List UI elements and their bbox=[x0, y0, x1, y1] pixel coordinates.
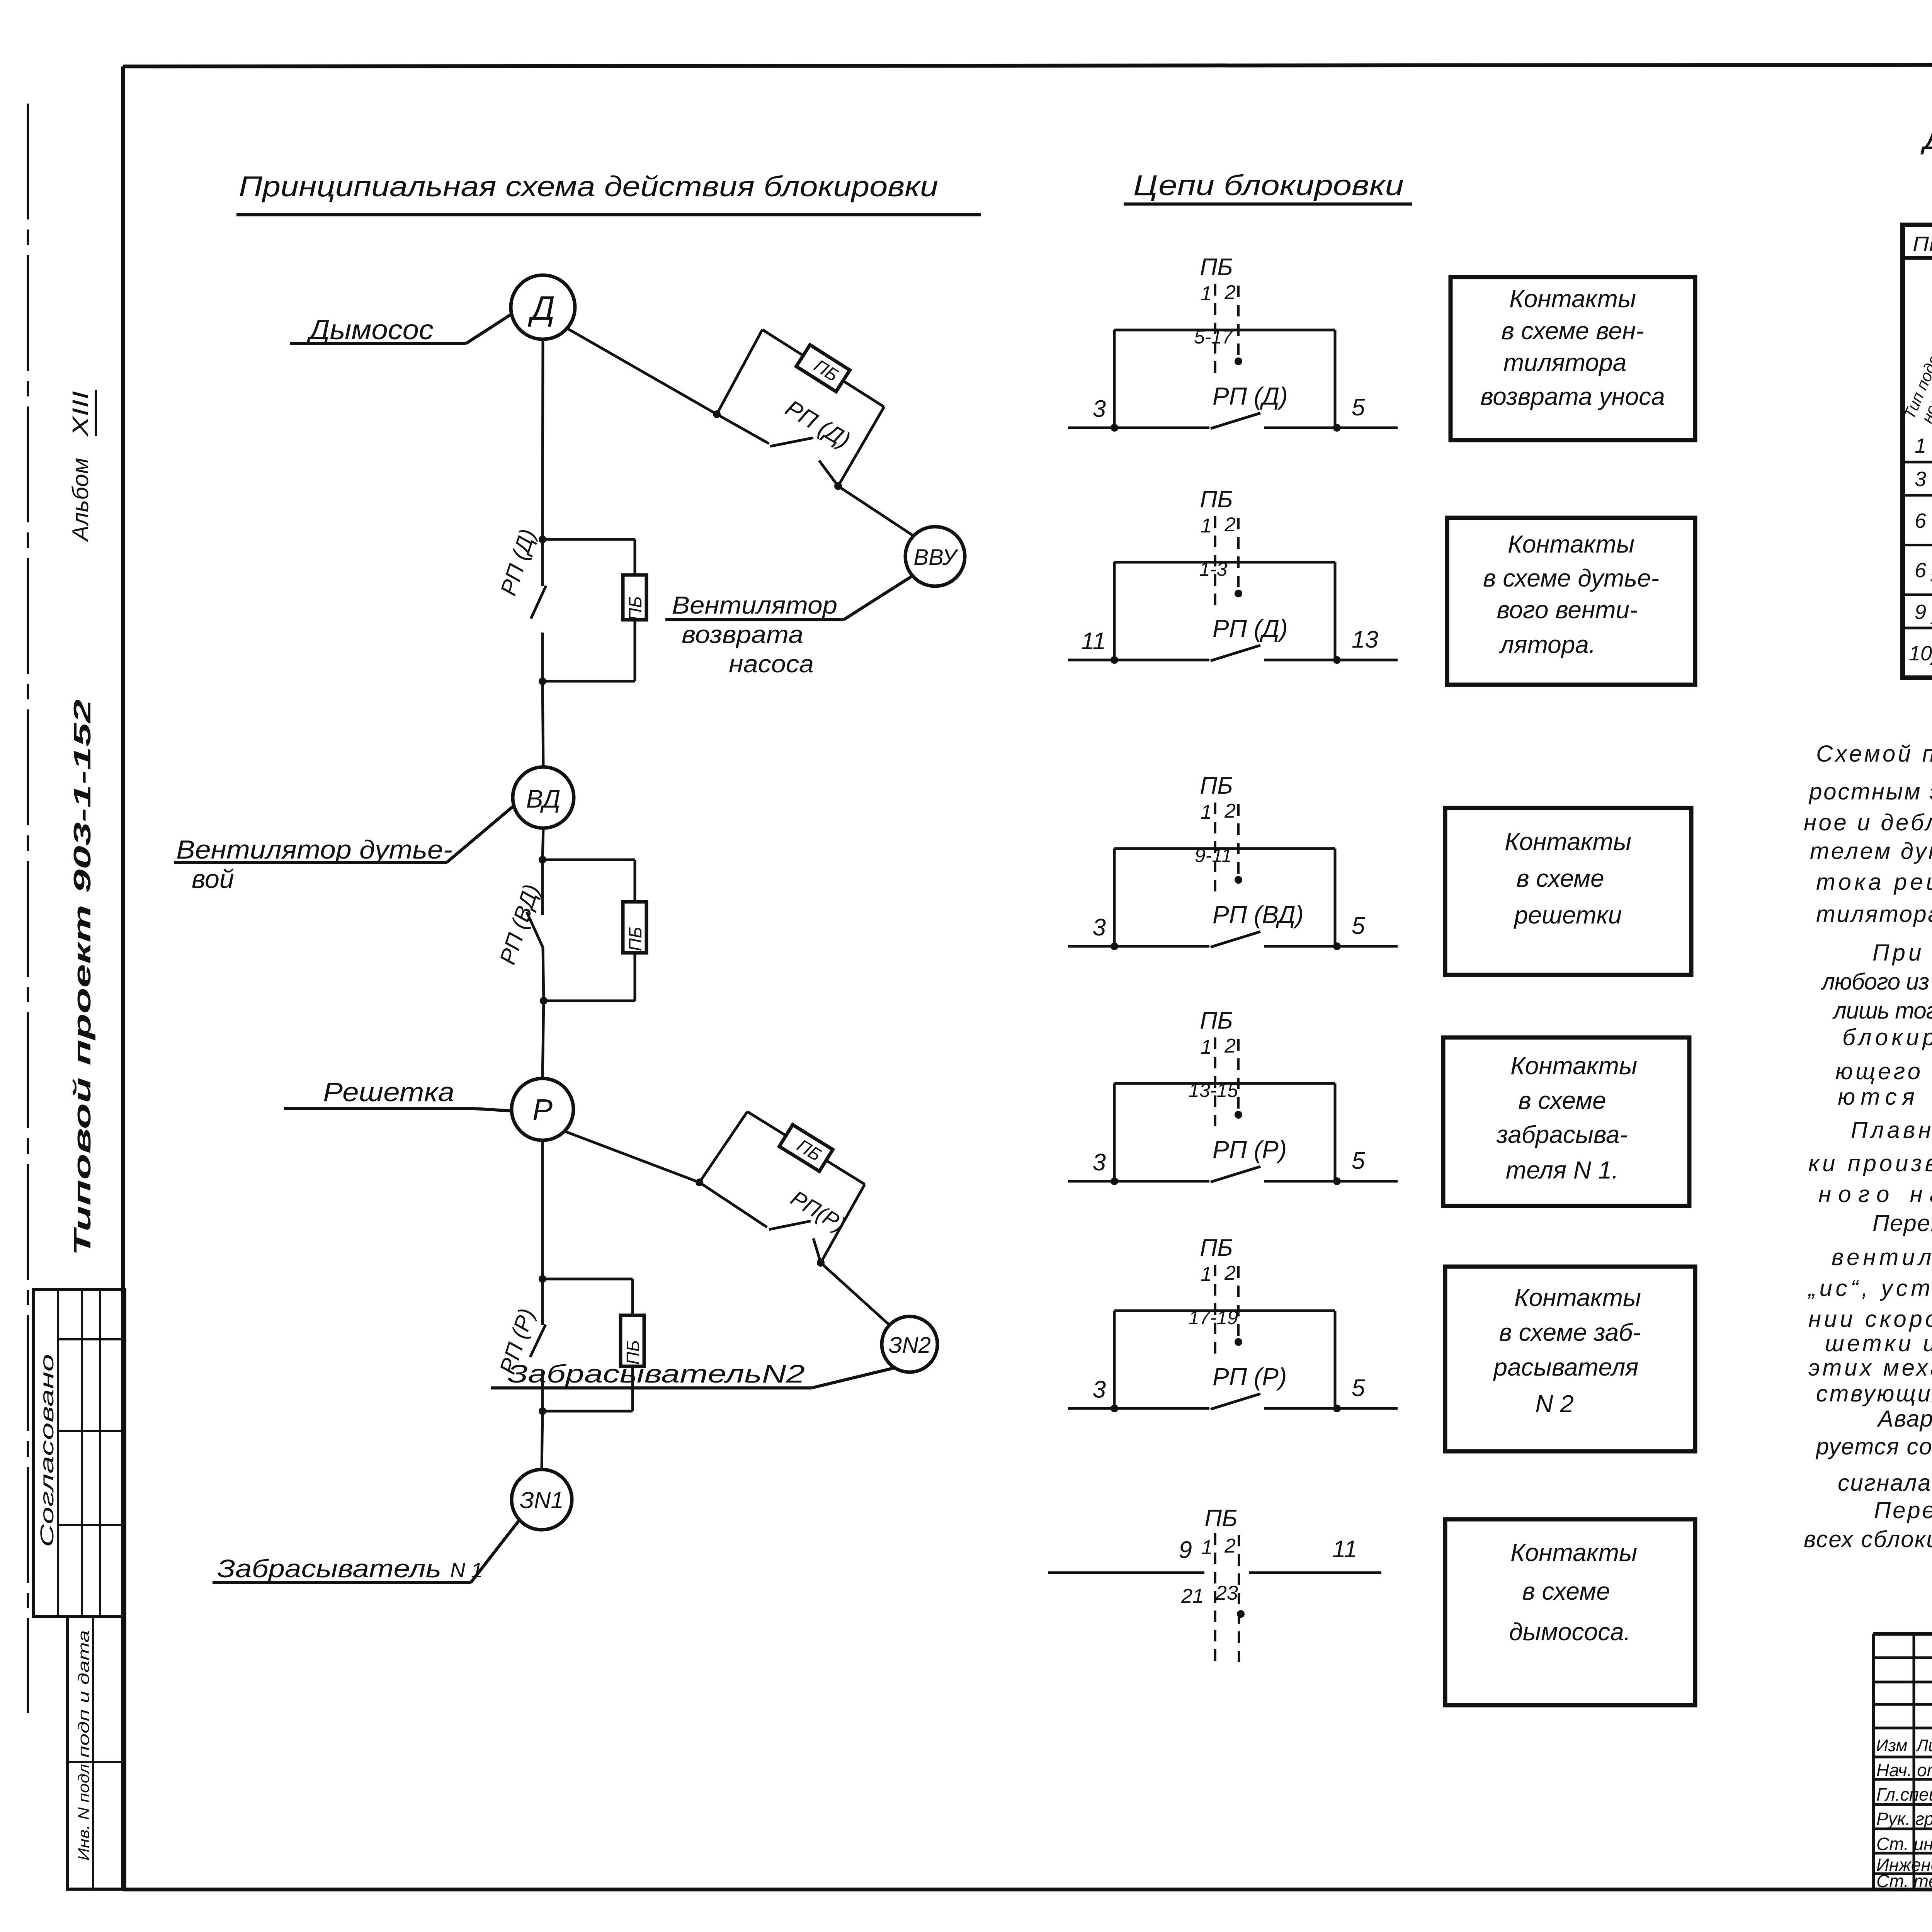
svg-text:Изм: Изм bbox=[1876, 1736, 1908, 1755]
interlock circuit fragment (terminals 3-5) bbox=[1068, 1311, 1398, 1409]
machine circle ЗN1 (забрасыватель 1) bbox=[512, 1469, 572, 1530]
title block: revision table grid bbox=[1873, 1634, 1932, 1889]
svg-text:Забрасыватель: Забрасыватель bbox=[217, 1554, 441, 1583]
linkage node dot bbox=[1235, 357, 1242, 365]
svg-text:9-11: 9-11 bbox=[1195, 845, 1232, 866]
ПБ switch linkage (dashed) with pin numbers bbox=[1200, 1007, 1238, 1132]
linkage node dot bbox=[1235, 1338, 1242, 1346]
bypass wire with ПБ box (Р-ЗN2 branch) bbox=[699, 1112, 865, 1263]
wire node D2 to ВВУ bbox=[838, 486, 914, 536]
sidebar table: Согласовано block bbox=[33, 1289, 125, 1616]
svg-text:РП (Д): РП (Д) bbox=[1213, 382, 1288, 410]
svg-text:2: 2 bbox=[1224, 281, 1236, 304]
interlock circuit fragment (дымосос, terminals 9-11) bbox=[1048, 1571, 1381, 1574]
interlock circuit fragment (terminals 3-5) bbox=[1068, 849, 1398, 947]
svg-text:1-3: 1-3 bbox=[1199, 558, 1227, 580]
svg-text:1: 1 bbox=[1201, 1036, 1212, 1058]
node D1 bbox=[713, 410, 721, 418]
linkage node dot circuit 6 bbox=[1237, 1610, 1245, 1618]
svg-text:забрасыва-: забрасыва- bbox=[1496, 1121, 1628, 1148]
contact РП(Р) on main wire bbox=[530, 1279, 546, 1411]
svg-text:вой: вой bbox=[192, 864, 234, 894]
svg-text:Согласовано: Согласовано bbox=[37, 1354, 58, 1547]
svg-text:23: 23 bbox=[1215, 1582, 1238, 1604]
svg-text:13: 13 bbox=[1352, 626, 1378, 653]
svg-text:1: 1 bbox=[1915, 434, 1926, 457]
svg-text:XIII: XIII bbox=[68, 391, 93, 438]
ПБ box on Д-ВВУ branch bbox=[796, 345, 850, 391]
svg-text:РП (Д): РП (Д) bbox=[1213, 614, 1288, 642]
node terminal 5 bbox=[1333, 1405, 1341, 1412]
svg-text:ПБ: ПБ bbox=[625, 927, 645, 951]
svg-text:Д: Д bbox=[527, 289, 555, 327]
wire ВД to node V2 bbox=[543, 828, 543, 860]
svg-text:Гл.спец.: Гл.спец. bbox=[1876, 1784, 1932, 1804]
svg-text:в схеме: в схеме bbox=[1522, 1577, 1610, 1605]
table: key KУ contact diagram bbox=[1903, 225, 1932, 678]
bypass wire with ПБ box (branch 1) bbox=[543, 539, 646, 681]
svg-text:тилятора возврата уноса и: тилятора возврата уноса и забрасывателям… bbox=[1816, 901, 1932, 927]
svg-text:5: 5 bbox=[1352, 913, 1365, 939]
node terminal 3 bbox=[1111, 942, 1118, 950]
interlock circuit fragment (terminals 3-5) bbox=[1068, 330, 1398, 429]
annotation box: контакты вентилятора возврата уноса bbox=[1451, 277, 1695, 440]
svg-text:лятора.: лятора. bbox=[1498, 631, 1595, 658]
svg-text:ВВУ: ВВУ bbox=[913, 545, 958, 570]
ПБ switch linkage (dashed) with pin numbers bbox=[1200, 486, 1238, 611]
svg-text:шетки и забрасывателей откл: шетки и забрасывателей отключаются, посл… bbox=[1825, 1330, 1932, 1356]
wire node V2 to Р bbox=[543, 1001, 544, 1078]
svg-text:Переключатель блокировки „ПБ: Переключатель блокировки „ПБ“ является о… bbox=[1874, 1497, 1932, 1523]
node V3 bottom bbox=[539, 1407, 546, 1415]
svg-text:Типовой проект 903-1-152: Типовой проект 903-1-152 bbox=[69, 699, 96, 1256]
svg-text:Аварийный останов электро: Аварийный останов электродвигателей сигн… bbox=[1877, 1406, 1932, 1432]
svg-text:Плавное регулирование скоро: Плавное регулирование скорости электродв… bbox=[1851, 1117, 1932, 1143]
svg-text:Рук. гр.: Рук. гр. bbox=[1876, 1809, 1932, 1829]
svg-text:Альбом: Альбом bbox=[68, 458, 93, 542]
machine circle ВВУ (вентилятор возврата уноса) bbox=[905, 527, 965, 586]
svg-text:тока решетки и односкорост: тока решетки и односкоростными электродв… bbox=[1816, 869, 1932, 895]
svg-text:Контакты: Контакты bbox=[1510, 1539, 1637, 1566]
svg-text:в схеме: в схеме bbox=[1518, 1087, 1606, 1114]
bypass wire with ПБ box (Д-ВВУ branch) bbox=[717, 330, 884, 486]
linkage node dot bbox=[1235, 1111, 1242, 1119]
svg-text:5: 5 bbox=[1352, 394, 1365, 421]
wire node V1 to ВД bbox=[543, 681, 543, 767]
wire node V3 to ЗN1 bbox=[542, 1411, 543, 1469]
svg-text:10: 10 bbox=[1909, 642, 1932, 665]
svg-text:3: 3 bbox=[1093, 914, 1106, 941]
svg-text:5: 5 bbox=[1352, 1375, 1365, 1401]
svg-text:11: 11 bbox=[1332, 1536, 1357, 1563]
svg-text:теля N 1.: теля N 1. bbox=[1506, 1156, 1619, 1184]
node R2 bbox=[817, 1259, 825, 1267]
svg-text:6: 6 bbox=[1915, 509, 1927, 532]
svg-text:ВД: ВД bbox=[526, 784, 560, 813]
svg-text:Решетка: Решетка bbox=[323, 1077, 454, 1107]
svg-text:ПБ: ПБ bbox=[1200, 254, 1233, 281]
svg-text:РП (Р): РП (Р) bbox=[1213, 1363, 1287, 1391]
svg-text:17-19: 17-19 bbox=[1189, 1307, 1238, 1328]
node terminal 5 bbox=[1333, 1177, 1341, 1185]
svg-text:5-17: 5-17 bbox=[1194, 326, 1233, 348]
svg-text:лишь тогда, когда включен п: лишь тогда, когда включен предшествующий… bbox=[1832, 998, 1932, 1024]
svg-text:ющего по схеме электродвигат: ющего по схеме электродвигателя автомати… bbox=[1835, 1058, 1932, 1084]
svg-text:РП (ВД): РП (ВД) bbox=[1213, 901, 1304, 929]
svg-text:Переключение скоростей элек: Переключение скоростей электродвигателя … bbox=[1872, 1210, 1932, 1236]
svg-text:3: 3 bbox=[1093, 1149, 1106, 1176]
node terminal 3 bbox=[1111, 1405, 1118, 1412]
svg-text:ПБ: ПБ bbox=[1200, 772, 1233, 799]
svg-text:ПБ: ПБ bbox=[1200, 486, 1233, 513]
interlock circuit fragment (terminals 3-5) bbox=[1068, 1083, 1398, 1182]
svg-text:Ст. инж.: Ст. инж. bbox=[1876, 1834, 1932, 1854]
svg-text:дымососа.: дымососа. bbox=[1509, 1618, 1631, 1646]
annotation box: контакты забрасывателя N2 bbox=[1445, 1267, 1695, 1451]
svg-text:3: 3 bbox=[1930, 569, 1932, 585]
svg-text:ПБ: ПБ bbox=[1204, 1505, 1237, 1532]
svg-text:ПБ: ПБ bbox=[1200, 1007, 1233, 1034]
svg-text:Вентилятор: Вентилятор bbox=[672, 591, 837, 619]
svg-text:сигналами.: сигналами. bbox=[1838, 1470, 1932, 1496]
interlock circuit fragment (terminals 11-13) bbox=[1068, 562, 1398, 661]
wire Р to node R1 (diagonal) bbox=[565, 1131, 699, 1182]
svg-text:5: 5 bbox=[1352, 1148, 1365, 1174]
svg-text:3: 3 bbox=[1093, 1376, 1106, 1403]
machine circle Д (дымосос) bbox=[511, 275, 575, 339]
annotation box: контакты забрасывателя N1 bbox=[1443, 1037, 1689, 1206]
svg-text:в схеме вен-: в схеме вен- bbox=[1501, 317, 1644, 345]
svg-text:1: 1 bbox=[1201, 282, 1212, 305]
svg-text:ПМОВФ-136б3 9: ПМОВФ-136б3 9 bbox=[1913, 233, 1932, 256]
linkage node dot bbox=[1235, 876, 1242, 884]
svg-text:ное и деблокированное управл: ное и деблокированное управление трехско… bbox=[1804, 810, 1932, 835]
node V3 top bbox=[539, 1275, 546, 1283]
annotation box: контакты решетки bbox=[1445, 808, 1691, 975]
node terminal 5 bbox=[1333, 942, 1341, 950]
svg-text:любого из сблокированных эле: любого из сблокированных электродвигател… bbox=[1821, 969, 1932, 995]
svg-text:Контакты: Контакты bbox=[1514, 1284, 1641, 1311]
svg-text:2: 2 bbox=[1224, 1262, 1236, 1284]
svg-text:9: 9 bbox=[1179, 1537, 1192, 1563]
svg-text:насоса: насоса bbox=[729, 650, 814, 678]
node terminal 13 bbox=[1333, 656, 1341, 664]
svg-text:ПБ: ПБ bbox=[1200, 1235, 1233, 1261]
machine circle ЗN2 (забрасыватель 2) bbox=[882, 1316, 937, 1372]
svg-text:2: 2 bbox=[1224, 514, 1236, 536]
machine circle Р (решетка) bbox=[512, 1078, 573, 1140]
svg-text:N 1: N 1 bbox=[450, 1559, 483, 1582]
node terminal 3 bbox=[1111, 1177, 1118, 1185]
svg-text:6: 6 bbox=[1915, 559, 1927, 582]
machine circle ВД (вентилятор дутьевой) bbox=[513, 767, 574, 828]
svg-text:21: 21 bbox=[1181, 1585, 1204, 1607]
svg-text:Вентилятор дутье-: Вентилятор дутье- bbox=[176, 835, 452, 864]
svg-text:Нач. отд: Нач. отд bbox=[1876, 1760, 1932, 1780]
svg-text:Принципиальная схема действ: Принципиальная схема действия блокировки bbox=[239, 170, 938, 202]
svg-text:нии скоростей электродвигате: нии скоростей электродвигатели дутьевого… bbox=[1808, 1306, 1932, 1332]
annotation box: контакты дымососа bbox=[1445, 1519, 1695, 1705]
svg-text:Цепи блокировки: Цепи блокировки bbox=[1133, 169, 1404, 201]
svg-text:3: 3 bbox=[1915, 468, 1926, 491]
svg-text:Лист: Лист bbox=[1915, 1736, 1932, 1755]
svg-text:11: 11 bbox=[1081, 628, 1106, 655]
node terminal 5 bbox=[1333, 424, 1341, 432]
border: left filing margin line bbox=[27, 104, 29, 1713]
svg-text:13-15: 13-15 bbox=[1189, 1080, 1238, 1101]
linkage node dot bbox=[1235, 590, 1242, 597]
svg-text:этих механизмов осуществляет: этих механизмов осуществляется вручную с… bbox=[1808, 1355, 1932, 1381]
bypass wire with ПБ box (branch 2) bbox=[543, 860, 646, 1001]
svg-text:возврата уноса: возврата уноса bbox=[1480, 383, 1665, 410]
svg-text:всех сблокированных механизм: всех сблокированных механизмов котлоагре… bbox=[1804, 1526, 1932, 1552]
svg-text:ЗN1: ЗN1 bbox=[520, 1487, 564, 1513]
ПБ switch linkage (dashed) with pin numbers bbox=[1200, 772, 1238, 897]
svg-text:тилятора: тилятора bbox=[1503, 349, 1627, 376]
svg-text:1: 1 bbox=[1930, 611, 1932, 627]
contact РП(Р) on Р-ЗN2 diagonal bbox=[699, 1182, 821, 1263]
node R1 bbox=[696, 1179, 703, 1186]
contact РП(Д) on main wire bbox=[531, 539, 546, 681]
svg-text:N 2: N 2 bbox=[1535, 1390, 1574, 1418]
node terminal 3 bbox=[1111, 424, 1118, 432]
annotation box: контакты дутьевого вентилятора bbox=[1447, 518, 1695, 685]
svg-text:в схеме заб-: в схеме заб- bbox=[1499, 1318, 1641, 1346]
svg-text:2: 2 bbox=[1224, 1535, 1236, 1557]
svg-text:2: 2 bbox=[1224, 800, 1236, 822]
svg-text:9: 9 bbox=[1915, 600, 1926, 624]
explanation paragraph text bbox=[1804, 741, 1932, 1552]
ПБ switch linkage (dashed) circuit 6 bbox=[1201, 1505, 1239, 1665]
svg-text:Р: Р bbox=[532, 1093, 553, 1127]
svg-text:ствующих ключей управления: ствующих ключей управления „КУ“ на щите … bbox=[1816, 1381, 1932, 1406]
svg-text:ПБ: ПБ bbox=[625, 596, 645, 621]
contact РП(ВД) on main wire bbox=[527, 860, 544, 1001]
node V1 top bbox=[539, 536, 546, 543]
svg-text:Контакты: Контакты bbox=[1510, 1052, 1637, 1080]
svg-text:Ст. тех.: Ст. тех. bbox=[1876, 1871, 1932, 1891]
svg-text:2: 2 bbox=[1224, 1035, 1236, 1057]
svg-text:ЗабрасывательN2: ЗабрасывательN2 bbox=[507, 1359, 805, 1388]
wire Р to node V3 bbox=[541, 1140, 544, 1279]
svg-text:1: 1 bbox=[1201, 1536, 1213, 1559]
svg-text:1: 1 bbox=[1201, 515, 1212, 537]
svg-text:в схеме дутье-: в схеме дутье- bbox=[1483, 564, 1659, 592]
node V2 bottom bbox=[540, 997, 548, 1005]
svg-text:Контакты: Контакты bbox=[1505, 828, 1631, 855]
node V1 bottom bbox=[539, 677, 546, 685]
wire node R2 to ЗN2 bbox=[821, 1263, 891, 1326]
node terminal 11 bbox=[1111, 656, 1118, 664]
svg-text:возврата: возврата bbox=[682, 621, 803, 648]
svg-text:в схеме: в схеме bbox=[1516, 864, 1604, 892]
node D2 bbox=[834, 482, 842, 490]
ПБ box on Р-ЗN2 branch bbox=[779, 1125, 833, 1171]
svg-text:Инв. N подл: Инв. N подл bbox=[75, 1764, 92, 1861]
node V2 top bbox=[539, 856, 546, 864]
contact РП(Д) on Д-ВВУ diagonal bbox=[717, 414, 838, 486]
svg-text:решетки: решетки bbox=[1514, 901, 1622, 929]
bypass wire with ПБ box (branch 3) bbox=[543, 1279, 644, 1411]
wire Д to node V1 bbox=[543, 339, 543, 539]
svg-text:ЗN2: ЗN2 bbox=[888, 1333, 931, 1358]
wire Д to node D1 (diagonal) bbox=[567, 328, 717, 414]
svg-text:РП (Р): РП (Р) bbox=[1213, 1136, 1287, 1163]
svg-text:вого венти-: вого венти- bbox=[1497, 596, 1638, 624]
svg-text:2: 2 bbox=[1930, 652, 1932, 668]
svg-text:подп и дата: подп и дата bbox=[75, 1630, 92, 1758]
sidebar table: Инв N подл / Подп и дата block bbox=[68, 1616, 125, 1889]
ПБ switch linkage (dashed) with pin numbers bbox=[1200, 254, 1238, 378]
svg-text:ки производится с помощью з: ки производится с помощью задатчика скор… bbox=[1808, 1150, 1932, 1176]
svg-text:расывателя: расывателя bbox=[1493, 1353, 1639, 1381]
svg-text:3: 3 bbox=[1093, 396, 1106, 422]
svg-text:Контакты: Контакты bbox=[1509, 285, 1636, 313]
svg-text:1: 1 bbox=[1201, 1263, 1212, 1286]
svg-text:Дымосос: Дымосос bbox=[306, 315, 434, 345]
svg-text:1: 1 bbox=[1201, 801, 1212, 823]
svg-text:Контакты: Контакты bbox=[1508, 530, 1634, 558]
ПБ switch linkage (dashed) with pin numbers bbox=[1200, 1235, 1238, 1359]
